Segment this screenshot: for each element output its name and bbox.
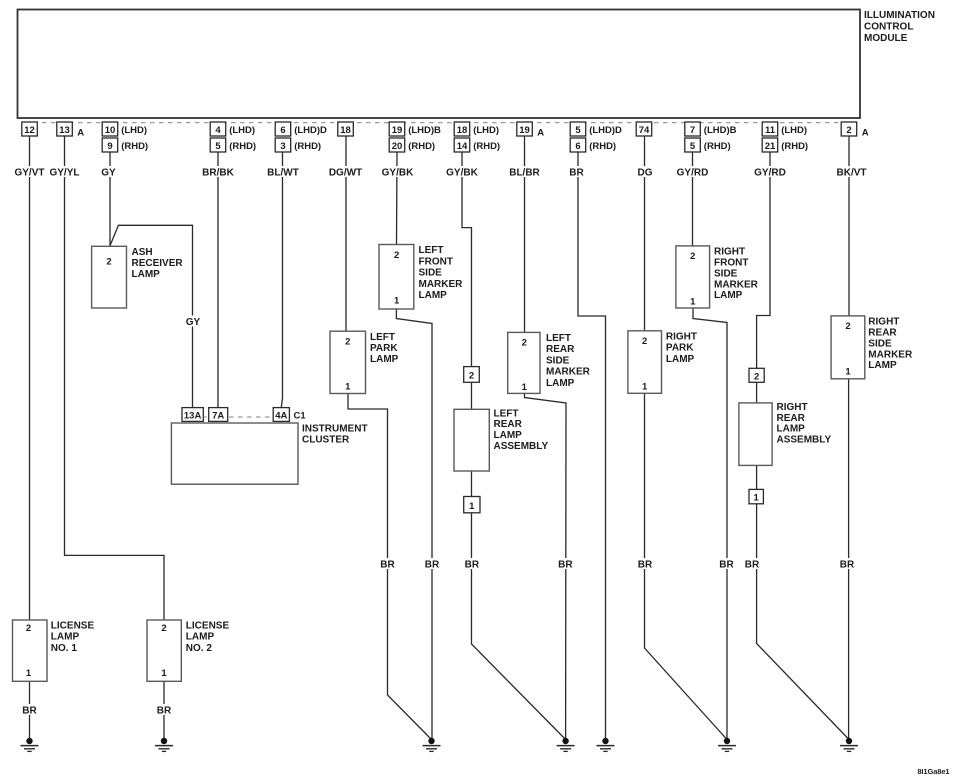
label wire colour DG/WT [328,166,364,179]
svg-text:1: 1 [522,382,528,393]
svg-text:19: 19 [519,125,530,136]
label wire colour GY/RD [752,166,788,179]
label wire colour GY/VT [12,166,48,179]
svg-text:(LHD)B: (LHD)B [408,125,441,136]
svg-text:LAMP: LAMP [714,290,743,301]
svg-text:LAMP: LAMP [51,632,80,643]
wire GY from pin 10/9 to ash receiver lamp [109,152,111,246]
svg-text:18: 18 [457,125,468,136]
svg-text:3: 3 [280,141,285,152]
pin 18 on module connector [338,122,354,136]
svg-text:4A: 4A [275,410,287,421]
svg-text:6: 6 [280,125,285,136]
wire BR from left rear lamp assembly to connector 1 [471,471,473,497]
svg-text:2: 2 [469,371,474,382]
wire BR from right rear side marker lamp pin 1 to ground G4 [848,379,850,740]
svg-text:1: 1 [690,296,696,307]
svg-text:(LHD): (LHD) [121,125,147,136]
svg-text:(RHD): (RHD) [294,141,321,152]
svg-text:(LHD)B: (LHD)B [704,125,737,136]
svg-text:SIDE: SIDE [868,338,892,349]
pin 19 on module connector [517,122,544,139]
svg-text:14: 14 [457,141,468,152]
svg-text:FRONT: FRONT [419,256,453,267]
lamp: LICENSE LAMP NO. 2 [147,620,229,681]
wire GY/BK from pin 19/20 to left front side marker lamp [396,152,399,245]
label wire colour BL/WT [265,166,301,179]
instrument cluster pin 13A [182,408,203,422]
wire GY/RD from pin 7/5 to right front side marker lamp [692,152,694,246]
lamp: RIGHT FRONT SIDE MARKER LAMP [676,246,759,308]
svg-text:ILLUMINATION: ILLUMINATION [864,10,935,21]
ground G4 [840,738,858,752]
ground G1 [557,738,575,752]
svg-text:LEFT: LEFT [370,332,395,343]
wire BR from left park lamp pin 1 to ground G7 [348,394,432,740]
label wire colour GY/RD [675,166,711,179]
lamp: LICENSE LAMP NO. 1 [13,620,95,681]
svg-text:REAR: REAR [546,344,575,355]
svg-text:5: 5 [215,141,221,152]
svg-text:ASH: ASH [132,247,153,258]
svg-text:5: 5 [690,141,696,152]
svg-text:LAMP: LAMP [546,378,575,389]
svg-text:RIGHT: RIGHT [777,402,808,413]
svg-text:BR: BR [22,706,37,717]
svg-text:GY/RD: GY/RD [754,168,786,179]
svg-text:BR: BR [157,706,172,717]
module: ILLUMINATION CONTROL MODULE [18,10,935,119]
svg-text:LAMP: LAMP [494,430,523,441]
svg-text:2: 2 [642,336,647,347]
instrument cluster pin 7A [209,408,228,422]
svg-text:13A: 13A [184,410,202,421]
svg-text:1: 1 [394,296,400,307]
label wire colour BR [569,166,585,179]
pin 18/14 on module connector [454,122,500,152]
svg-text:BR: BR [425,560,440,571]
label wire colour BR [463,558,480,571]
svg-text:2: 2 [522,338,527,349]
svg-text:BR: BR [569,168,584,179]
svg-text:NO. 1: NO. 1 [51,643,78,654]
svg-text:2: 2 [345,337,350,348]
wire GY/BK from pin 18/14 to connector 2 of left rear lamp assembly [462,152,472,367]
label wire colour BK/VT [834,166,870,179]
svg-text:PARK: PARK [666,343,694,354]
svg-text:13: 13 [59,125,70,136]
label wire colour BR [557,558,574,571]
svg-text:BK/VT: BK/VT [837,168,867,179]
svg-text:MODULE: MODULE [864,33,908,44]
lamp: LEFT FRONT SIDE MARKER LAMP [379,245,463,310]
svg-text:1: 1 [26,668,32,679]
label wire colour BR [424,558,441,571]
svg-text:REAR: REAR [494,419,523,430]
svg-text:1: 1 [754,493,760,504]
svg-text:LAMP: LAMP [666,354,695,365]
svg-text:9: 9 [107,141,112,152]
svg-text:RIGHT: RIGHT [666,331,697,342]
ground G7 [423,738,441,752]
label C1 connector of instrument cluster [294,410,307,421]
wire BR from connector 1 to ground G4 [757,504,849,740]
wire BR from license lamp no.1 to ground G5 [29,681,31,738]
svg-text:20: 20 [392,141,403,152]
svg-text:19: 19 [392,125,403,136]
svg-text:2: 2 [26,623,31,634]
svg-text:RECEIVER: RECEIVER [132,258,184,269]
svg-text:(RHD): (RHD) [704,141,731,152]
ground G3 [718,738,736,752]
svg-text:BR: BR [465,560,480,571]
wire BK/VT from pin 2 A to right rear side marker lamp [848,136,850,316]
label wire colour BR [744,558,761,571]
label wire colour BR (license lamp no.2) [156,704,173,717]
svg-text:8I1Ga8e1: 8I1Ga8e1 [917,767,949,776]
wire BR from pin 5/6 to ground G2 [578,152,606,740]
svg-text:LAMP: LAMP [777,424,806,435]
svg-text:2: 2 [845,321,850,332]
svg-text:SIDE: SIDE [714,268,738,279]
svg-text:21: 21 [765,141,776,152]
ground G2 [597,738,615,752]
svg-text:LICENSE: LICENSE [51,620,95,631]
ground G6 [155,738,173,752]
pin 12 on module connector [22,122,38,136]
svg-text:A: A [77,128,84,139]
wire GY/VT from pin 12 to license lamp no.1 [29,136,31,620]
svg-text:LAMP: LAMP [370,354,399,365]
pin 74 on module connector [636,122,652,136]
svg-text:GY: GY [101,168,116,179]
svg-text:MARKER: MARKER [868,349,913,360]
label wire colour BR [839,558,856,571]
svg-text:RIGHT: RIGHT [714,247,745,258]
ground G5 [21,738,39,752]
svg-text:(RHD): (RHD) [408,141,435,152]
svg-text:INSTRUMENT: INSTRUMENT [302,423,368,434]
svg-text:MARKER: MARKER [546,367,591,378]
svg-text:1: 1 [845,366,851,377]
svg-text:GY/BK: GY/BK [382,168,414,179]
svg-text:ASSEMBLY: ASSEMBLY [777,434,832,445]
svg-text:BL/BR: BL/BR [509,168,540,179]
wire GY/YL from pin 13 to license lamp no.2 [65,136,165,620]
svg-text:4: 4 [215,125,221,136]
svg-text:BR: BR [840,560,855,571]
wire BR from right park lamp pin 1 to ground G3 [645,393,728,739]
svg-text:MARKER: MARKER [419,279,464,290]
wire BR/BK from pin 4/5 to instrument cluster pin 7A [217,152,219,408]
svg-text:2: 2 [161,623,166,634]
svg-text:GY/RD: GY/RD [677,168,709,179]
svg-text:5: 5 [575,125,581,136]
pin 7/5 on module connector [685,122,737,152]
wire DG from pin 74 to right park lamp [644,136,646,331]
pin 2 on module connector [841,122,869,139]
svg-text:(RHD): (RHD) [121,141,148,152]
label wire colour GY [101,166,117,179]
svg-text:(RHD): (RHD) [229,141,256,152]
svg-text:GY: GY [186,317,201,328]
label wire colour BR [379,558,396,571]
svg-text:2: 2 [106,257,111,268]
wire segment connector 2 to left rear lamp assembly [471,382,473,409]
lamp: RIGHT REAR SIDE MARKER LAMP [831,316,913,379]
wire BR from license lamp no.2 to ground G6 [163,681,165,738]
svg-text:2: 2 [394,250,399,261]
svg-text:REAR: REAR [777,413,806,424]
pin 5/6 on module connector [570,122,622,152]
wire BL/BR from pin 19 A to left rear side marker lamp [524,136,526,332]
label drawing code 8I1Ga8e1 [917,767,949,776]
svg-text:SIDE: SIDE [546,355,570,366]
svg-text:2: 2 [690,251,695,262]
svg-text:CONTROL: CONTROL [864,21,913,32]
svg-text:GY/VT: GY/VT [14,168,44,179]
svg-text:11: 11 [765,125,776,136]
svg-text:LAMP: LAMP [132,269,161,280]
pin 4/5 on module connector [210,122,256,152]
svg-text:BR: BR [719,560,734,571]
svg-text:12: 12 [24,125,35,136]
wire BR from right rear lamp assembly to connector 1 [756,465,758,489]
wire segment connector 2 to right rear lamp assembly [756,382,758,403]
lamp: LEFT REAR SIDE MARKER LAMP [508,332,591,393]
connector 1 of right rear lamp assembly [749,489,763,503]
svg-text:74: 74 [639,125,650,136]
lamp: LEFT REAR LAMP ASSEMBLY [454,408,548,471]
pin 6/3 on module connector [275,122,327,152]
svg-text:DG: DG [638,168,653,179]
svg-text:LAMP: LAMP [186,632,215,643]
svg-text:(LHD)D: (LHD)D [589,125,622,136]
svg-text:(LHD): (LHD) [781,125,807,136]
svg-text:PARK: PARK [370,343,398,354]
svg-text:1: 1 [345,382,351,393]
wire DG/WT from pin 18 to left park lamp [345,136,347,331]
wire BL/WT from pin 6/3 to instrument cluster pin 4A [281,152,282,408]
svg-text:LEFT: LEFT [494,408,519,419]
svg-text:BR: BR [380,560,395,571]
wire BR from connector 1 to ground G1 [472,513,566,740]
label wire colour BR [718,558,735,571]
svg-text:(LHD)D: (LHD)D [294,125,327,136]
svg-text:18: 18 [340,125,351,136]
svg-text:LAMP: LAMP [419,290,448,301]
wire GY branch to instrument cluster pin 13A [110,225,193,407]
svg-text:FRONT: FRONT [714,258,748,269]
svg-text:LEFT: LEFT [419,245,444,256]
pin 13 on module connector [57,122,84,139]
svg-text:LEFT: LEFT [546,333,571,344]
svg-text:2: 2 [846,125,851,136]
dashed connector line A along module bottom [24,122,855,124]
wire BR from left front side marker lamp pin 1 to ground G7 [396,309,432,740]
label wire colour GY/YL [47,166,83,179]
svg-text:(LHD): (LHD) [229,125,255,136]
instrument cluster pin 4A [273,408,289,422]
svg-text:RIGHT: RIGHT [868,317,899,328]
svg-text:GY/YL: GY/YL [49,168,79,179]
svg-text:(RHD): (RHD) [473,141,500,152]
svg-text:ASSEMBLY: ASSEMBLY [494,441,549,452]
pin 10/9 on module connector [102,122,148,152]
svg-text:(RHD): (RHD) [781,141,808,152]
svg-text:LICENSE: LICENSE [186,620,230,631]
svg-text:GY/BK: GY/BK [446,168,478,179]
svg-text:2: 2 [754,371,759,382]
label wire colour GY/BK [444,166,480,179]
svg-text:(RHD): (RHD) [589,141,616,152]
connector 2 of left rear lamp assembly [464,367,480,383]
pin 19/20 on module connector [389,122,441,152]
svg-text:NO. 2: NO. 2 [186,643,213,654]
label wire colour DG [637,166,653,179]
svg-text:BR: BR [745,560,760,571]
label wire colour BR/BK [200,166,236,179]
svg-text:1: 1 [469,501,475,512]
svg-text:A: A [537,128,544,139]
svg-text:1: 1 [642,381,648,392]
svg-text:BR: BR [558,560,573,571]
lamp: RIGHT PARK LAMP [628,331,697,394]
wire BR from left rear side marker lamp pin 1 to ground G1 [525,393,567,739]
svg-text:SIDE: SIDE [419,268,443,279]
svg-text:MARKER: MARKER [714,279,759,290]
svg-text:DG/WT: DG/WT [329,168,362,179]
label wire colour BR (license lamp no.1) [21,704,38,717]
lamp: RIGHT REAR LAMP ASSEMBLY [739,402,832,465]
dashed line between cluster pins [204,416,273,418]
svg-text:1: 1 [161,668,167,679]
svg-text:REAR: REAR [868,328,897,339]
pin 11/21 on module connector [762,122,808,152]
lamp: ASH RECEIVER LAMP [92,246,184,308]
label wire colour GY/BK [380,166,416,179]
label wire colour GY (branch to instrument cluster) [185,316,202,329]
svg-text:CLUSTER: CLUSTER [302,435,350,446]
svg-text:BL/WT: BL/WT [267,168,299,179]
label wire colour BR [637,558,654,571]
svg-text:C1: C1 [294,410,307,421]
svg-text:6: 6 [575,141,580,152]
svg-text:LAMP: LAMP [868,360,897,371]
svg-text:(LHD): (LHD) [473,125,499,136]
svg-text:7A: 7A [212,410,224,421]
connector 2 of right rear lamp assembly [749,368,764,382]
wire GY/RD from pin 11/21 to connector 2 of right rear lamp assembly [757,152,770,368]
connector 1 of left rear lamp assembly [464,497,480,513]
svg-text:BR/BK: BR/BK [202,168,234,179]
lamp: LEFT PARK LAMP [330,331,399,393]
svg-text:BR: BR [638,560,653,571]
svg-text:10: 10 [105,125,116,136]
label wire colour BL/BR [507,166,543,179]
svg-text:A: A [862,128,869,139]
instrument cluster [171,423,367,484]
wire BR from right front side marker lamp pin 1 to ground G3 [693,308,727,740]
svg-text:7: 7 [690,125,695,136]
